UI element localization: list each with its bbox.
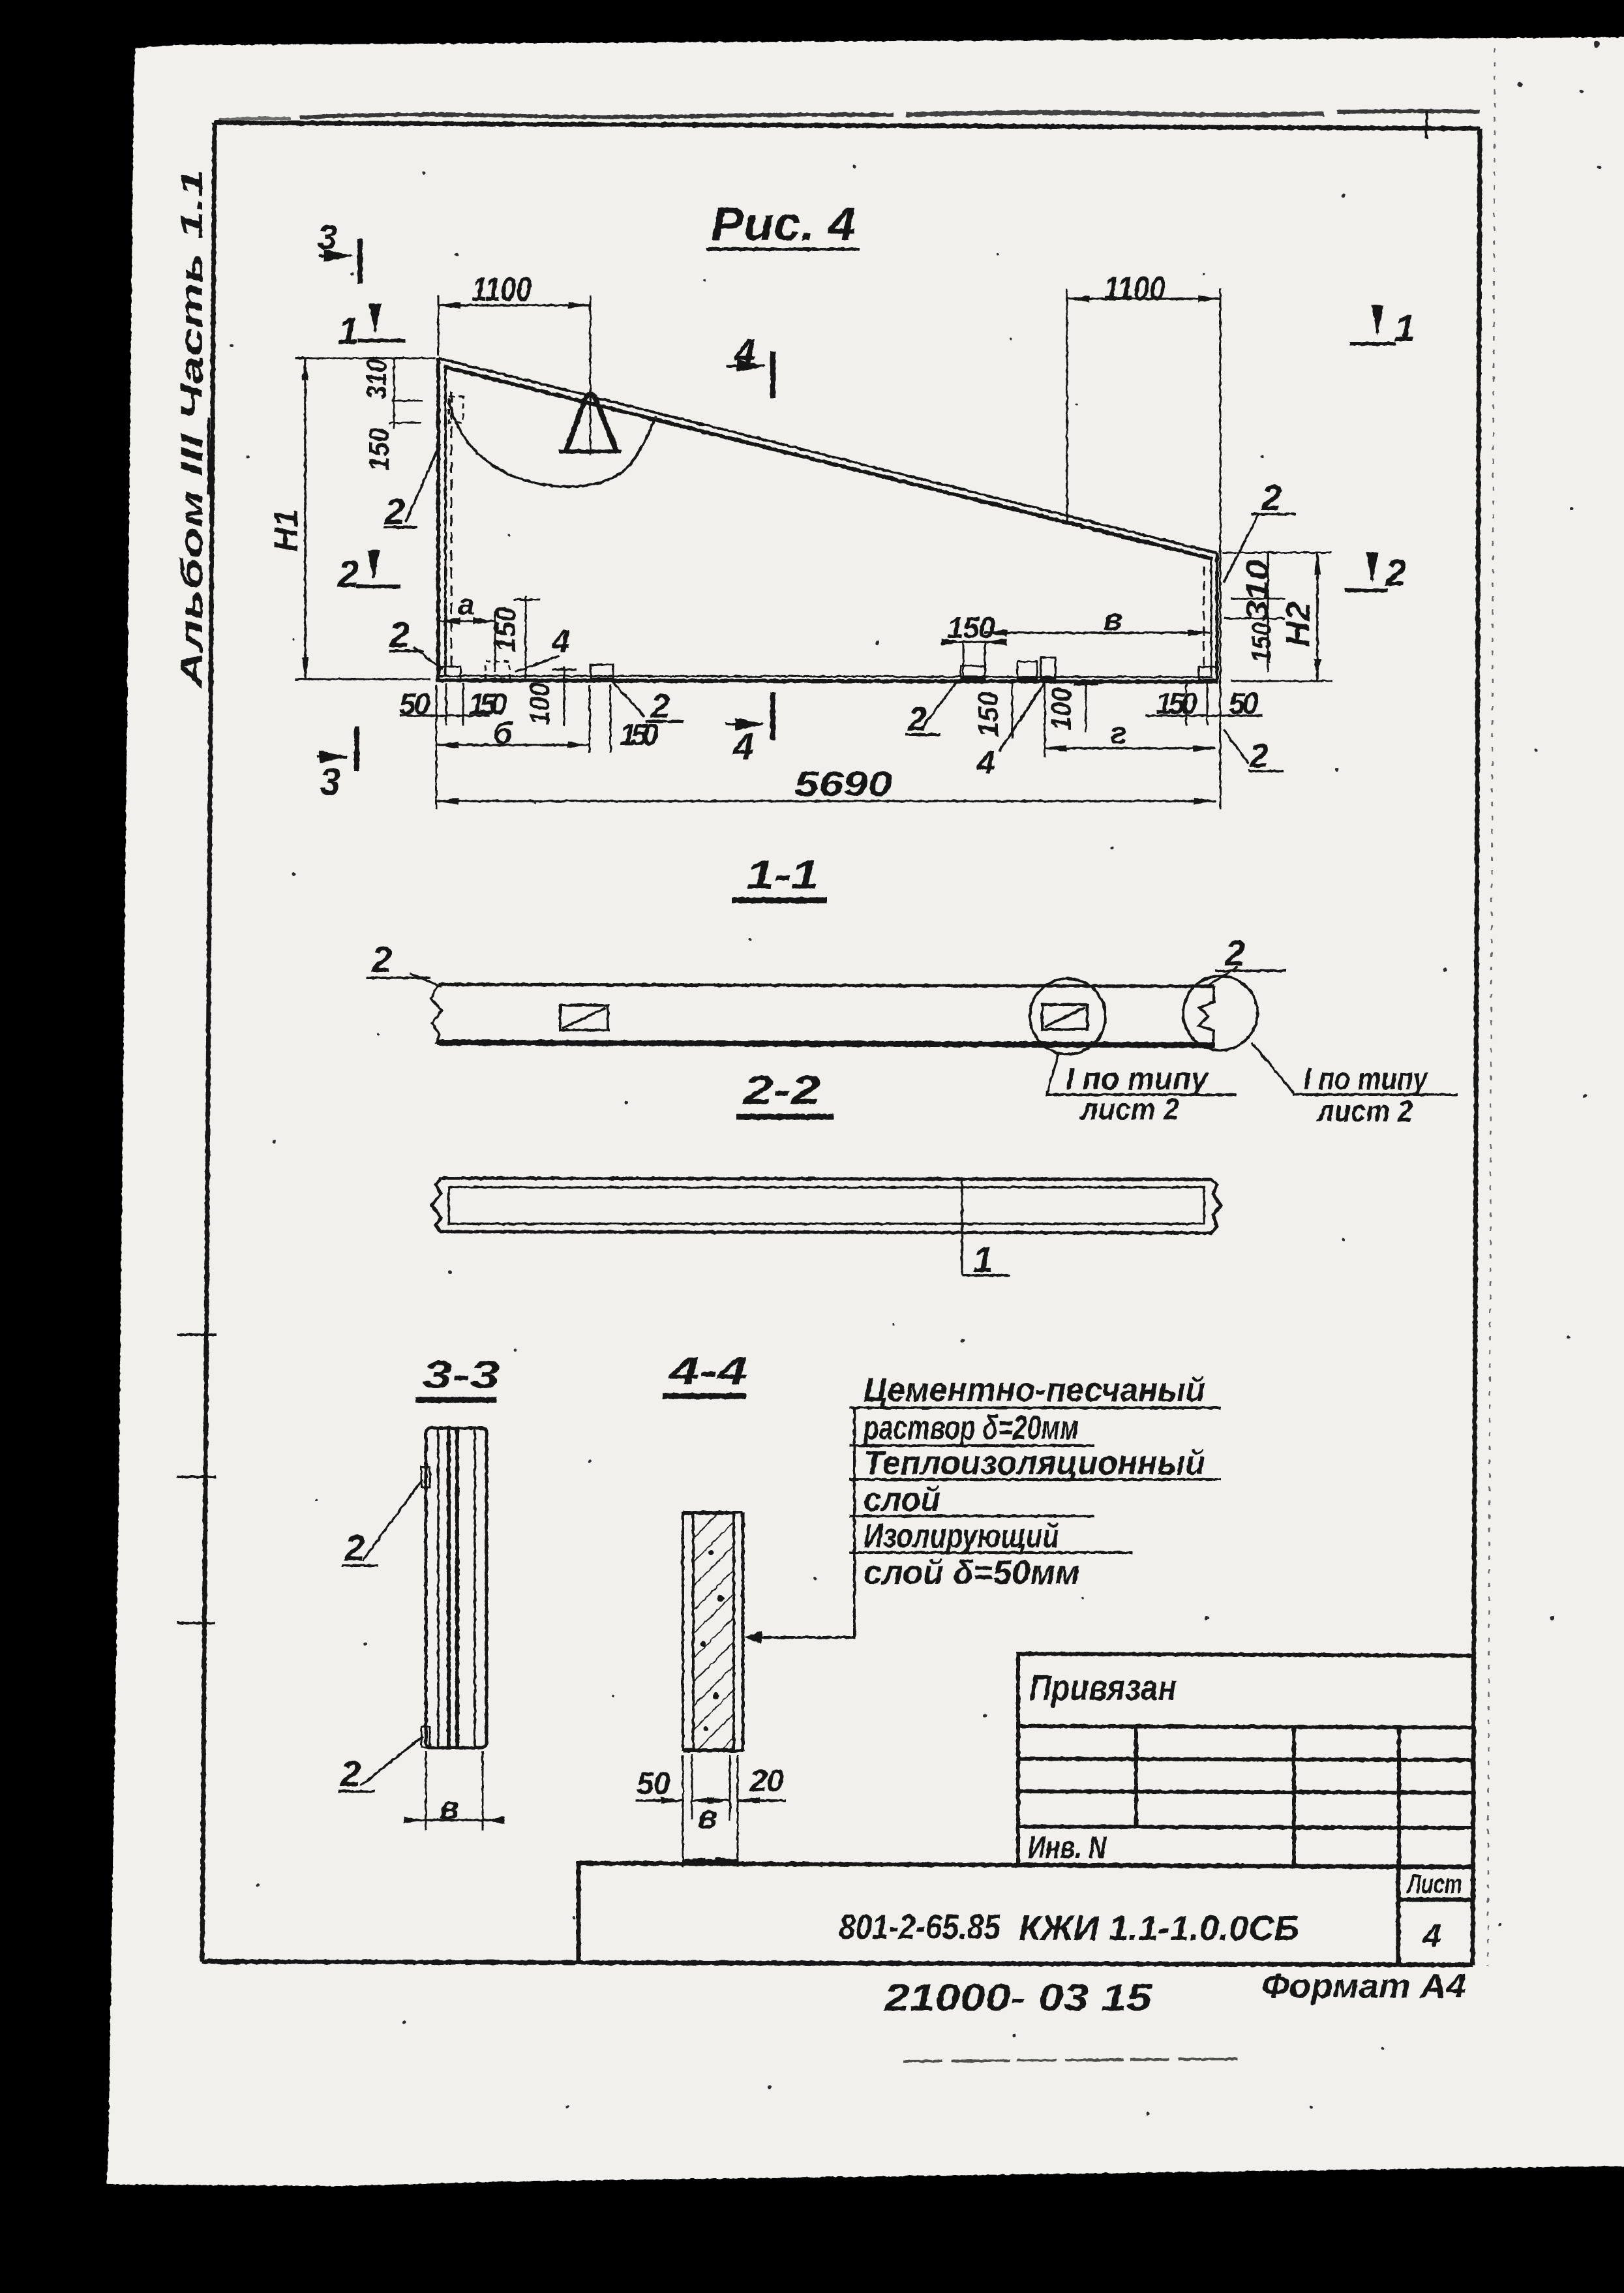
dim a bottom-left bbox=[438, 587, 495, 672]
section mark 3 bottom bbox=[317, 727, 357, 803]
svg-text:3-3: 3-3 bbox=[423, 1353, 500, 1397]
svg-text:150: 150 bbox=[490, 607, 522, 652]
panel right edge (double line) bbox=[1216, 553, 1219, 680]
detail circle mid bbox=[1030, 979, 1105, 1054]
section mark 1 top bbox=[338, 310, 406, 352]
section 2-2 bar bbox=[432, 1178, 1221, 1233]
embed plate right (hatched) bbox=[1042, 1005, 1087, 1029]
dim H1 left bbox=[267, 358, 436, 679]
svg-text:КЖИ 1.1-1.0.0СБ: КЖИ 1.1-1.0.0СБ bbox=[1019, 1909, 1299, 1948]
leader 2 bottom mid-left bbox=[612, 681, 684, 725]
panel sloped top edge (double line) bbox=[438, 358, 1217, 553]
svg-text:I по типу: I по типу bbox=[1304, 1062, 1429, 1097]
svg-text:Рис. 4: Рис. 4 bbox=[711, 198, 856, 251]
svg-text:2: 2 bbox=[344, 1527, 365, 1568]
joint line 1 in 2-2 bbox=[962, 1178, 1010, 1280]
section 1-1 bar bbox=[431, 984, 1215, 1045]
svg-text:Изолирующий: Изолирующий bbox=[864, 1517, 1059, 1555]
svg-text:Н2: Н2 bbox=[1280, 601, 1317, 647]
svg-text:2: 2 bbox=[371, 939, 392, 980]
section mark 4 bottom bbox=[725, 693, 773, 768]
callout "I по типу / лист 2" mid bbox=[1045, 1052, 1237, 1126]
svg-text:3: 3 bbox=[320, 761, 340, 803]
svg-text:4: 4 bbox=[976, 744, 995, 781]
svg-text:1-1: 1-1 bbox=[746, 853, 819, 898]
lifting loop triangle bbox=[566, 394, 616, 451]
dim v (в) under 3-3 bbox=[416, 1751, 493, 1830]
svg-text:4-4: 4-4 bbox=[669, 1349, 747, 1393]
recess wavy break line around loop bbox=[449, 399, 656, 487]
dim 100 vert bottom-left bbox=[524, 667, 577, 725]
svg-text:4: 4 bbox=[551, 623, 570, 660]
svg-text:г: г bbox=[1110, 716, 1127, 751]
stamp upper box bbox=[1018, 1654, 1473, 1866]
svg-text:4: 4 bbox=[734, 331, 755, 374]
svg-text:Альбом III Часть 1.1: Альбом III Часть 1.1 bbox=[174, 169, 209, 689]
frame top edge tick bbox=[1426, 111, 1427, 138]
dim b (б) bottom bbox=[436, 685, 610, 753]
svg-text:лист 2: лист 2 bbox=[1079, 1092, 1179, 1126]
svg-text:1100: 1100 bbox=[1104, 270, 1165, 308]
svg-text:Привязан: Привязан bbox=[1029, 1667, 1177, 1708]
leader 2 mid-right plate bbox=[905, 681, 957, 738]
leader 2 upper-left edge bbox=[383, 444, 440, 532]
svg-text:2: 2 bbox=[907, 701, 927, 738]
dim v (в) right bbox=[985, 603, 1210, 637]
svg-text:Формат А4: Формат А4 bbox=[1261, 1967, 1466, 2005]
dim g (г) bottom-right bbox=[1045, 682, 1215, 757]
tab bottom-left of 3-3 bbox=[421, 1727, 430, 1747]
svg-text:2: 2 bbox=[1261, 477, 1282, 518]
svg-text:лист 2: лист 2 bbox=[1316, 1094, 1413, 1128]
svg-text:4: 4 bbox=[1422, 1917, 1441, 1954]
svg-text:Н1: Н1 bbox=[267, 509, 305, 552]
svg-text:слой δ=50мм: слой δ=50мм bbox=[864, 1554, 1080, 1592]
svg-text:слой: слой bbox=[864, 1481, 940, 1519]
svg-text:2-2: 2-2 bbox=[743, 1068, 820, 1113]
svg-text:2: 2 bbox=[650, 688, 670, 725]
panel left inner dashed line bbox=[451, 391, 453, 672]
svg-text:2: 2 bbox=[337, 553, 359, 596]
svg-text:150: 150 bbox=[972, 691, 1004, 737]
leader 2 left of 1-1 bbox=[366, 939, 441, 986]
svg-text:100: 100 bbox=[524, 682, 556, 725]
svg-text:2: 2 bbox=[389, 614, 410, 655]
anchor plate mid-right bbox=[961, 666, 985, 678]
svg-text:Лист: Лист bbox=[1406, 1868, 1462, 1899]
leader from 4-4 to note text bbox=[747, 1408, 854, 1637]
faint pencil line bbox=[903, 2059, 1243, 2061]
svg-text:150: 150 bbox=[363, 428, 395, 471]
svg-text:2: 2 bbox=[340, 1753, 361, 1794]
svg-text:20: 20 bbox=[749, 1764, 784, 1799]
svg-text:Цементно-песчаный: Цементно-песчаный bbox=[864, 1371, 1205, 1409]
leader 2 lower 3-3 bbox=[338, 1737, 423, 1794]
dims 50 20 under 4-4 bbox=[636, 1755, 786, 1867]
svg-text:в: в bbox=[698, 1799, 717, 1835]
tab top-left of 3-3 bbox=[421, 1467, 430, 1487]
dim 50 150 chain bottom-left bbox=[399, 684, 507, 809]
dim 310 / 150 top-left bbox=[361, 359, 423, 471]
svg-text:1100: 1100 bbox=[472, 271, 532, 309]
dotted scanned page right edge bbox=[1488, 48, 1495, 1967]
section mark 3 top bbox=[318, 218, 360, 284]
section mark 2 left bbox=[337, 553, 400, 596]
svg-text:Теплоизоляционный: Теплоизоляционный bbox=[864, 1444, 1205, 1482]
leader 2 upper 3-3 bbox=[342, 1480, 423, 1568]
svg-text:1: 1 bbox=[338, 310, 359, 352]
callout "I по типу / лист 2" right bbox=[1252, 1042, 1458, 1128]
detail circle right end bbox=[1183, 976, 1257, 1050]
small dashed box top-left inside panel bbox=[449, 397, 463, 423]
dim 150 50 chain bottom-right bbox=[1145, 684, 1262, 725]
embed plate left (hatched) bbox=[560, 1005, 608, 1030]
svg-text:Инв. N: Инв. N bbox=[1028, 1830, 1107, 1865]
dim v (в) under 4-4 bbox=[683, 1799, 738, 1860]
panel right inner dashed line bbox=[1203, 566, 1205, 671]
svg-text:310: 310 bbox=[1241, 560, 1275, 621]
dim 150 vert mid-right bbox=[972, 681, 1012, 738]
svg-text:3: 3 bbox=[318, 218, 337, 257]
svg-text:150: 150 bbox=[1246, 622, 1276, 663]
scan speckles bbox=[230, 41, 1602, 2116]
corner square bottom-left bbox=[438, 667, 460, 680]
svg-text:2: 2 bbox=[1224, 932, 1245, 973]
anchor plates right pair bbox=[1017, 661, 1037, 678]
dim 150 inside right bbox=[944, 611, 1004, 678]
svg-text:150: 150 bbox=[947, 611, 995, 645]
dashed anchor box bottom-left bbox=[485, 661, 509, 678]
drawing frame border bbox=[202, 123, 1480, 1965]
svg-text:1: 1 bbox=[1394, 307, 1415, 350]
svg-text:а: а bbox=[458, 587, 475, 621]
svg-text:1: 1 bbox=[973, 1239, 993, 1280]
leader 2 bottom-right corner bbox=[1224, 729, 1284, 775]
main title bar bbox=[579, 1863, 1473, 1964]
svg-text:2: 2 bbox=[1385, 552, 1406, 594]
svg-text:21000- 03 15: 21000- 03 15 bbox=[884, 1977, 1152, 2019]
section mark 1 right top bbox=[1349, 307, 1415, 350]
dim 1100 top-right bbox=[1067, 270, 1220, 809]
frame left edge ticks bbox=[177, 1333, 217, 1336]
scanner black band bottom bbox=[0, 2166, 1624, 2293]
section 4-4 bar with hatching bbox=[683, 1512, 743, 1751]
dim 310 150 H2 right bbox=[1222, 553, 1332, 681]
panel bottom edge (double line) bbox=[438, 676, 1213, 677]
corner square bottom-right bbox=[1199, 667, 1217, 680]
leader 2 right of 1-1 bbox=[1207, 932, 1286, 986]
svg-text:310: 310 bbox=[361, 359, 393, 399]
svg-text:5690: 5690 bbox=[794, 765, 892, 804]
svg-text:50: 50 bbox=[637, 1767, 670, 1801]
leader 2 top-right edge bbox=[1224, 477, 1295, 583]
dim 150 vert near a bbox=[490, 596, 540, 678]
panel left edge (double line) bbox=[436, 358, 440, 680]
dim 100 vert mid-right bbox=[1045, 682, 1098, 732]
margin text "Альбом III Часть 1.1" bbox=[174, 169, 209, 689]
svg-text:100: 100 bbox=[1045, 688, 1077, 731]
section 3-3 bar bbox=[426, 1428, 487, 1748]
svg-text:2: 2 bbox=[384, 491, 405, 532]
svg-text:4: 4 bbox=[732, 725, 754, 768]
scanner black band left bbox=[0, 0, 138, 2293]
svg-text:801-2-65.85: 801-2-65.85 bbox=[839, 1907, 1001, 1947]
svg-text:2: 2 bbox=[1249, 737, 1269, 775]
dim 1100 top-left bbox=[438, 271, 590, 455]
scan smudges along paper top edge bbox=[300, 115, 894, 117]
leader 4 bottom-right bbox=[976, 682, 1045, 781]
svg-text:раствор δ=20мм: раствор δ=20мм bbox=[863, 1409, 1079, 1447]
leader 4 bottom-left bbox=[515, 623, 570, 672]
scanner black band top bbox=[0, 0, 1624, 48]
dim 5690 overall bbox=[436, 765, 1216, 804]
section mark 2 right bbox=[1345, 552, 1406, 594]
leader 2 lower-left corner bbox=[389, 614, 442, 669]
section mark 4 top bbox=[727, 331, 773, 398]
anchor plate b-left bbox=[591, 665, 613, 678]
